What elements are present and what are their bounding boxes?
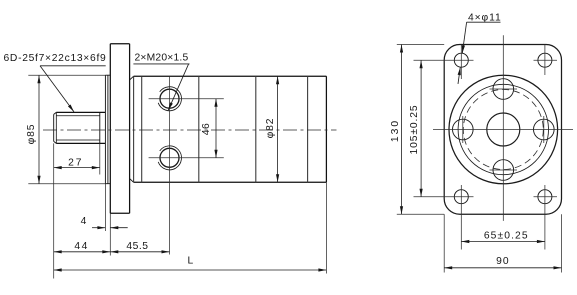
svg-text:4: 4 — [81, 216, 88, 227]
svg-text:130: 130 — [390, 119, 401, 142]
svg-text:4×φ11: 4×φ11 — [468, 12, 502, 23]
svg-text:6D-25f7×22c13×6f9: 6D-25f7×22c13×6f9 — [4, 53, 107, 64]
svg-text:27: 27 — [68, 157, 83, 168]
svg-text:φ82: φ82 — [265, 118, 276, 139]
svg-text:46: 46 — [201, 123, 212, 135]
svg-text:φ85: φ85 — [26, 124, 37, 145]
svg-text:65±0.25: 65±0.25 — [484, 231, 529, 242]
svg-text:L: L — [187, 255, 194, 266]
svg-text:105±0.25: 105±0.25 — [409, 104, 420, 154]
svg-text:45.5: 45.5 — [126, 241, 148, 252]
svg-text:2×M20×1.5: 2×M20×1.5 — [135, 53, 189, 64]
svg-text:44: 44 — [74, 241, 89, 252]
svg-text:90: 90 — [496, 256, 509, 267]
